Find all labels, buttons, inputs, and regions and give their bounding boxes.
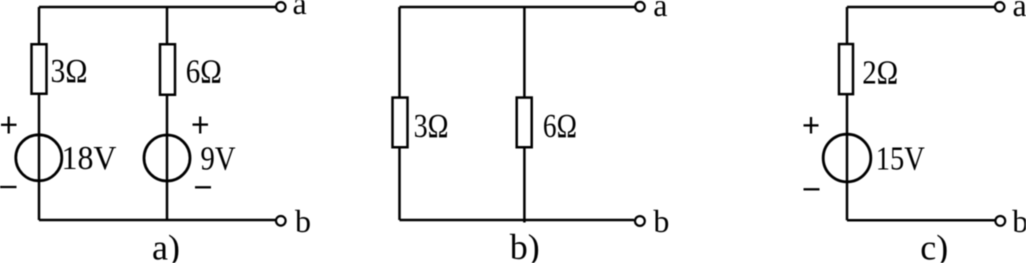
resistor 3ohm (circuit b) — [393, 98, 408, 148]
svg-text:a: a — [1013, 0, 1026, 23]
wire: circuit a bottom rail — [39, 219, 276, 222]
svg-text:9V: 9V — [201, 141, 236, 178]
wire: circuit a middle branch vertical — [166, 7, 169, 220]
svg-text:6Ω: 6Ω — [543, 108, 577, 145]
polarity plus of 18V — [1, 117, 17, 134]
svg-text:18V: 18V — [62, 140, 117, 177]
wire: circuit b right branch vertical — [523, 7, 526, 223]
wire: circuit c branch vertical — [846, 7, 849, 220]
polarity plus of 9V — [193, 117, 209, 134]
voltage source 18V (circuit a) — [16, 135, 62, 181]
voltage source 9V (circuit a) — [144, 135, 190, 181]
svg-text:a: a — [293, 0, 307, 21]
svg-text:3Ω: 3Ω — [51, 53, 88, 90]
svg-text:b: b — [653, 203, 669, 239]
svg-text:2Ω: 2Ω — [862, 55, 898, 92]
wire: circuit b top rail — [400, 6, 636, 9]
wire: circuit c bottom rail — [847, 219, 995, 222]
svg-text:a: a — [653, 0, 667, 23]
terminal node a (circuit b) — [635, 2, 644, 11]
resistor 2ohm (circuit c) — [839, 44, 853, 94]
svg-text:a): a) — [152, 228, 180, 263]
svg-text:15V: 15V — [876, 141, 925, 178]
svg-text:3Ω: 3Ω — [414, 108, 449, 145]
resistor 3ohm (circuit a) — [32, 44, 47, 94]
voltage source 15V (circuit c) — [823, 134, 871, 182]
resistor 6ohm (circuit a) — [160, 44, 175, 95]
polarity minus of 15V — [804, 188, 820, 190]
resistor 6ohm (circuit b) — [517, 98, 532, 148]
wire: circuit c top rail — [847, 6, 995, 9]
polarity minus of 9V — [195, 186, 211, 188]
svg-text:b): b) — [510, 227, 540, 263]
svg-text:6Ω: 6Ω — [186, 54, 222, 91]
terminal node a (circuit c) — [995, 2, 1004, 11]
wire: circuit a left branch vertical — [38, 7, 41, 220]
polarity minus of 18V — [0, 186, 17, 188]
terminal node b (circuit c) — [995, 216, 1005, 226]
terminal node a (circuit a) — [276, 2, 285, 11]
svg-text:b: b — [295, 203, 311, 239]
svg-text:c): c) — [920, 228, 948, 263]
wire: circuit b left branch vertical — [398, 7, 401, 220]
wire: circuit a top rail — [39, 6, 276, 9]
svg-text:b: b — [1012, 203, 1026, 239]
terminal node b (circuit a) — [276, 216, 286, 226]
terminal node b (circuit b) — [635, 216, 645, 226]
wire: circuit b bottom rail — [400, 219, 635, 222]
polarity plus of 15V — [804, 117, 819, 134]
